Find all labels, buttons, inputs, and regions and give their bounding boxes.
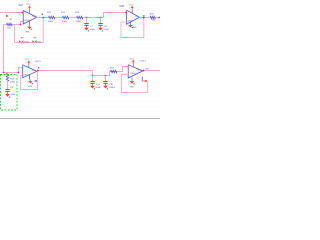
- svg-text:10kΩ: 10kΩ: [62, 21, 67, 23]
- svg-text:10nF: 10nF: [96, 87, 102, 89]
- svg-text:OUT3: OUT3: [35, 61, 42, 63]
- svg-text:OUT: OUT: [135, 16, 138, 18]
- svg-text:VCC: VCC: [130, 59, 135, 61]
- svg-text:U1A: U1A: [19, 4, 24, 7]
- svg-text:10kΩ: 10kΩ: [48, 21, 53, 23]
- svg-text:VEE: VEE: [25, 32, 30, 34]
- svg-text:VCC: VCC: [129, 4, 134, 6]
- svg-text:10nF: 10nF: [10, 94, 15, 96]
- svg-text:LM324: LM324: [130, 73, 137, 75]
- svg-text:1kΩ: 1kΩ: [152, 19, 156, 21]
- svg-text:VEE: VEE: [28, 86, 33, 88]
- svg-text:OUT: OUT: [32, 70, 35, 72]
- svg-text:1kΩ: 1kΩ: [37, 42, 41, 44]
- svg-text:10kΩ: 10kΩ: [24, 42, 29, 44]
- svg-text:10kΩ: 10kΩ: [10, 81, 15, 83]
- svg-text:VEE: VEE: [132, 27, 137, 29]
- svg-text:VCC: VCC: [26, 4, 31, 6]
- svg-text:OUT: OUT: [137, 70, 140, 72]
- svg-text:1kΩ: 1kΩ: [7, 28, 11, 30]
- svg-text:OUT4: OUT4: [140, 61, 147, 63]
- svg-text:VEE: VEE: [130, 86, 135, 88]
- svg-text:10nF: 10nF: [104, 29, 110, 31]
- svg-text:OUT: OUT: [145, 68, 150, 70]
- svg-text:10kΩ: 10kΩ: [76, 21, 81, 23]
- svg-text:OUT: OUT: [32, 16, 35, 18]
- svg-text:10nF: 10nF: [90, 29, 96, 31]
- svg-text:U1B: U1B: [120, 6, 125, 8]
